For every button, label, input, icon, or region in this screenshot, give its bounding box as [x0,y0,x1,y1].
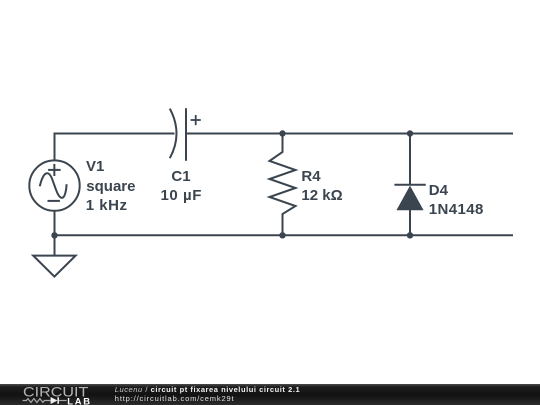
svg-text:LAB: LAB [67,396,91,405]
